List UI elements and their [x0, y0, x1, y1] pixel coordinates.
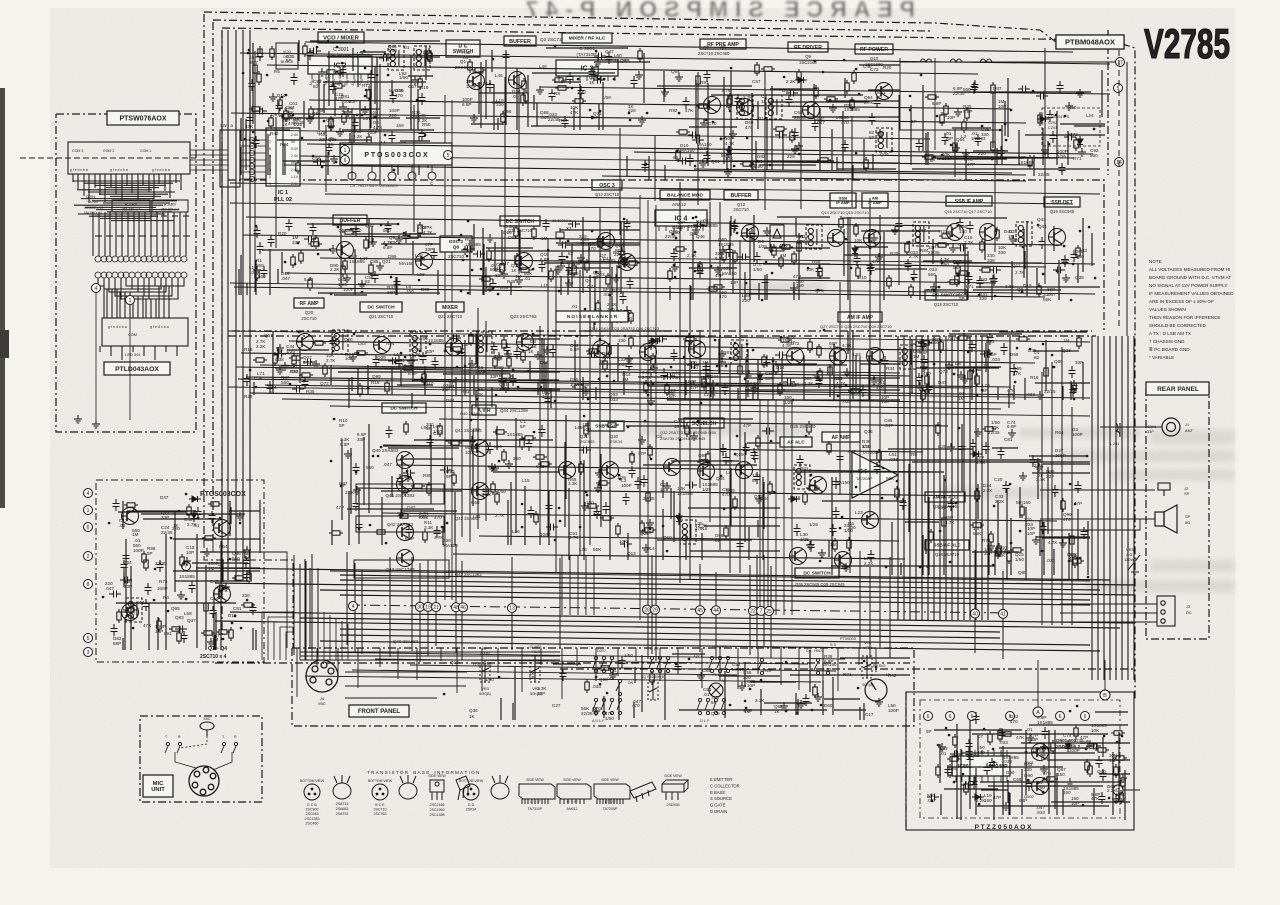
- node 6: [1081, 712, 1090, 721]
- ground: [646, 519, 654, 527]
- capacitor C134: [396, 356, 403, 368]
- component value labels: [245, 105, 431, 164]
- note text block: [1149, 259, 1234, 360]
- junction dots: [567, 241, 621, 311]
- ground: [336, 67, 344, 75]
- resistor R2: [428, 50, 432, 64]
- transistor Q38 2SA719: [835, 552, 852, 569]
- resistor R149: [778, 338, 792, 342]
- resistor R239: [813, 684, 817, 698]
- resistor R71: [308, 242, 322, 246]
- wire bus: [340, 629, 1000, 638]
- resistor R212: [806, 486, 820, 490]
- wire: [869, 567, 871, 658]
- capacitor C109: [967, 221, 974, 233]
- IC IC 3: [556, 60, 618, 81]
- junction dots: [761, 680, 821, 713]
- capacitor C218: [983, 442, 990, 454]
- ground: [1041, 146, 1049, 154]
- block AM IF AMP 1: [862, 193, 888, 208]
- wire bus: [300, 618, 1120, 628]
- resistor R277: [1085, 759, 1089, 773]
- resistor R132: [450, 347, 464, 351]
- wire: [275, 117, 277, 248]
- wire: [323, 612, 325, 660]
- resistor R48: [944, 103, 948, 117]
- wire: [659, 648, 661, 681]
- node 45: [696, 606, 705, 615]
- wires (interconnect bundle): [670, 215, 830, 300]
- capacitor C17: [594, 53, 606, 60]
- resistor R44: [991, 139, 995, 153]
- resistor R12: [258, 46, 262, 60]
- capacitor C54: [419, 129, 426, 141]
- capacitor C60: [326, 143, 333, 155]
- wire: [651, 555, 653, 654]
- resistor R158: [818, 368, 822, 382]
- capacitor C8: [257, 49, 264, 61]
- resistor R184: [448, 441, 462, 445]
- node 13: [508, 603, 517, 612]
- resistor R268: [1114, 764, 1118, 778]
- capacitor C101: [854, 254, 861, 266]
- wiring fan to LED display: [98, 278, 184, 360]
- ground: [724, 168, 732, 176]
- resistor R150: [586, 349, 600, 353]
- node 22: [749, 606, 758, 615]
- resistor R151: [817, 344, 821, 358]
- ground: [1078, 148, 1086, 156]
- wire vertical trunk: [767, 400, 769, 615]
- wire right trunk: [1121, 336, 1123, 680]
- wire: [325, 194, 1073, 204]
- node 3: [84, 648, 93, 657]
- resistor R114: [854, 223, 858, 237]
- ground: [829, 104, 837, 112]
- capacitor C171: [528, 506, 535, 518]
- faint bleed-through print at top (decorative): [519, 0, 915, 22]
- capacitor C224: [678, 158, 690, 165]
- resistor R141: [762, 354, 766, 368]
- wire: [375, 659, 808, 664]
- resistor R15: [524, 90, 528, 104]
- capacitor C248: [243, 556, 250, 568]
- ground: [582, 387, 590, 395]
- wire: [274, 622, 293, 660]
- wire: [383, 445, 923, 452]
- display segment wiring fan: [73, 174, 181, 221]
- resistor R153: [629, 335, 633, 349]
- transistor Q10 2SC1969: [876, 83, 893, 100]
- capacitor C271: [927, 794, 939, 801]
- capacitor C117: [566, 263, 573, 275]
- board label PTBM048AOX (top): [1056, 35, 1124, 49]
- wire: [282, 399, 1001, 409]
- resistor R191: [584, 423, 588, 437]
- node 2: [84, 552, 93, 561]
- transistor Q27 2SC710: [787, 348, 804, 365]
- ground: [719, 246, 727, 254]
- resistor R83: [585, 259, 589, 273]
- PTOS003COX pins: [348, 165, 436, 180]
- resistor R233: [864, 157, 868, 171]
- resistor R247: [232, 576, 246, 580]
- wires (interconnect bundle): [795, 424, 1090, 575]
- capacitor C249: [215, 585, 227, 592]
- contact row lower: [95, 272, 187, 278]
- resistor R68: [255, 267, 259, 281]
- ground: [344, 450, 352, 458]
- resistor R196: [706, 451, 710, 465]
- wire: [654, 136, 656, 201]
- TO-220 package angled: [456, 776, 470, 800]
- node 30: [416, 602, 425, 611]
- junction dots: [645, 155, 992, 166]
- POWER switch contacts: [758, 658, 764, 674]
- resistor R206: [585, 504, 599, 508]
- component value labels: [913, 336, 1083, 401]
- capacitor C21: [567, 72, 574, 84]
- ground: [797, 700, 805, 708]
- diode matrix wiring: [93, 212, 190, 256]
- ground: [595, 469, 603, 477]
- resistor R115: [955, 273, 959, 287]
- capacitor C142: [663, 373, 675, 380]
- resistor R136: [323, 363, 327, 377]
- resistor R186: [538, 462, 552, 466]
- capacitor C207: [998, 447, 1005, 459]
- transformer T2: [766, 95, 782, 119]
- resistor R168: [1044, 365, 1048, 379]
- ground: [814, 693, 822, 701]
- wire: [1118, 50, 1120, 330]
- junction dots: [250, 332, 544, 395]
- capacitor C241: [210, 606, 217, 618]
- node 14: [1115, 158, 1124, 167]
- resistor R67: [291, 254, 295, 268]
- ground: [690, 432, 698, 440]
- board label PTLD043AOX: [104, 362, 170, 375]
- node 1: [126, 296, 135, 305]
- diode: [191, 510, 197, 522]
- resistor R30: [824, 97, 838, 101]
- node 21: [432, 603, 441, 612]
- resistor R126: [469, 332, 473, 346]
- ground: [1112, 795, 1120, 803]
- wire vertical trunk: [909, 336, 911, 620]
- ground: [1019, 472, 1027, 480]
- wire: [307, 144, 1093, 154]
- resistor R161: [975, 373, 979, 387]
- node 19: [424, 602, 433, 611]
- capacitor C77: [568, 221, 580, 228]
- wire right trunk: [1127, 336, 1129, 680]
- sheet title V2785: [1144, 20, 1230, 67]
- transistor Q22 2SC710: [446, 339, 463, 356]
- wire: [576, 648, 578, 666]
- resistor R274: [1088, 763, 1092, 777]
- wire: [382, 513, 1057, 521]
- wire: [175, 752, 196, 768]
- transformer T6: [806, 225, 822, 249]
- resistor R272: [948, 764, 952, 778]
- ground: [718, 350, 726, 358]
- wire: [756, 555, 758, 646]
- wire left trunk: [305, 561, 307, 655]
- ground: [395, 235, 403, 243]
- resistor R147: [572, 385, 586, 389]
- mic plug connector: [189, 766, 219, 796]
- capacitor C168: [1001, 343, 1008, 355]
- capacitor C16: [606, 52, 613, 64]
- ground: [236, 512, 244, 520]
- wire: [697, 72, 699, 205]
- wire row2 top: [230, 183, 1100, 194]
- resistor R130: [521, 349, 525, 363]
- resistor R97: [779, 245, 793, 249]
- capacitor C80: [473, 251, 485, 258]
- resistor R194: [640, 520, 644, 534]
- block AM AF ALC: [925, 492, 965, 502]
- IC: [266, 128, 300, 186]
- wire: [285, 273, 996, 283]
- transistor Q1 (module): [122, 508, 139, 525]
- resistor R266: [1111, 731, 1125, 735]
- wire: [497, 648, 499, 673]
- ground: [486, 283, 494, 291]
- capacitor C67: [261, 266, 268, 278]
- board outline frame: [212, 22, 214, 540]
- resistor R226: [989, 531, 993, 545]
- wire: [309, 568, 311, 649]
- wire vertical trunk: [903, 336, 905, 620]
- resistor R93: [722, 249, 726, 263]
- mic connector J4: [306, 660, 338, 692]
- wire: [518, 74, 520, 274]
- resistor R29: [814, 85, 818, 99]
- wire: [898, 95, 900, 285]
- resistor R185: [522, 436, 536, 440]
- wire: [521, 648, 523, 692]
- junction dots: [245, 96, 425, 170]
- wire: [303, 652, 845, 659]
- resistor R127: [292, 353, 296, 367]
- node 6: [924, 712, 933, 721]
- ground: [795, 142, 803, 150]
- wire: [1100, 426, 1162, 428]
- wire: [416, 648, 418, 680]
- capacitor C53: [352, 118, 359, 130]
- wire: [300, 659, 560, 661]
- resistor R282: [998, 728, 1002, 742]
- ground: [411, 76, 419, 84]
- wire row2 bottom: [230, 283, 1095, 294]
- resistor R23: [472, 68, 486, 72]
- resistor R56: [284, 108, 288, 122]
- wire: [231, 113, 1026, 123]
- wire left trunk: [242, 30, 244, 580]
- wire: [241, 353, 1035, 363]
- capacitor C3: [379, 55, 391, 62]
- ground: [361, 106, 369, 114]
- wire vertical trunk: [679, 182, 681, 583]
- resistor R128: [504, 379, 508, 393]
- wire: [304, 559, 306, 660]
- wire: [1123, 789, 1140, 791]
- wire: [329, 615, 331, 660]
- resistor R228: [921, 388, 925, 402]
- transistor Q21 2SC710: [374, 337, 391, 354]
- capacitor C214: [830, 524, 837, 536]
- board outline frame: [222, 28, 1108, 40]
- resistor R210: [1070, 533, 1074, 547]
- wire: [129, 304, 131, 420]
- wires (interconnect bundle): [750, 677, 860, 715]
- ground: [488, 463, 496, 471]
- ground: [222, 583, 230, 591]
- junction dots: [444, 659, 876, 701]
- IC package view AN612: [557, 784, 591, 804]
- ground: [557, 262, 565, 270]
- transistor Q31 2SC945: [559, 462, 576, 479]
- block MIXER Q22: [436, 302, 464, 312]
- block SSB IF AMP 1: [830, 193, 856, 208]
- antenna jack J1: [1162, 418, 1180, 436]
- wires (interconnect bundle): [911, 70, 1105, 165]
- wire: [577, 555, 579, 615]
- node 4: [349, 602, 358, 611]
- resistor R120: [572, 263, 576, 277]
- wire: [719, 648, 721, 681]
- capacitor C25: [593, 77, 605, 84]
- block SQUELCH: [684, 418, 724, 428]
- wire: [234, 287, 1045, 297]
- wire: [95, 292, 97, 420]
- ground: [344, 108, 352, 116]
- wire left trunk: [249, 30, 251, 580]
- wire: [439, 419, 948, 426]
- resistor R217: [807, 421, 811, 435]
- capacitor C122: [302, 377, 309, 389]
- ground: [938, 743, 946, 751]
- transistor base view G D: [463, 784, 479, 800]
- resistor R203: [605, 423, 619, 427]
- node 5: [1114, 84, 1123, 93]
- resistor R190: [630, 451, 634, 465]
- capacitor C23: [589, 67, 596, 79]
- ground: [790, 284, 798, 292]
- ground: [813, 371, 821, 379]
- transistor Q18 2SC710: [619, 254, 636, 271]
- resistor R255: [123, 608, 137, 612]
- resistor R270: [1113, 756, 1127, 760]
- resistor R225: [1070, 559, 1084, 563]
- wire: [602, 176, 1026, 181]
- external speaker jack: [1158, 483, 1170, 496]
- wire: [413, 105, 415, 232]
- transistor Q40 2SA683: [397, 452, 414, 469]
- resistor R201: [648, 444, 652, 458]
- node 6: [1006, 712, 1015, 721]
- wire: [456, 648, 458, 693]
- wire vertical trunk: [975, 336, 977, 620]
- capacitor C18: [487, 80, 494, 92]
- resistor R94: [772, 244, 776, 258]
- capacitor C2: [309, 48, 321, 55]
- wires (interconnect bundle): [565, 415, 780, 560]
- capacitor C76: [597, 234, 604, 246]
- resistor R108: [935, 243, 949, 247]
- wire vertical trunk: [609, 229, 611, 495]
- ground: [253, 266, 261, 274]
- resistor R57: [269, 115, 273, 129]
- wire: [453, 554, 905, 559]
- capacitor C96: [762, 275, 769, 287]
- wire vertical trunk: [469, 357, 471, 542]
- wire vertical trunk: [981, 336, 983, 620]
- wire: [300, 651, 560, 653]
- wire: [357, 488, 981, 496]
- wire: [561, 555, 563, 615]
- wire left trunk: [221, 30, 223, 580]
- capacitor C120: [499, 374, 506, 386]
- ground: [947, 443, 955, 451]
- resistor R202: [600, 516, 614, 520]
- capacitor C46: [971, 82, 978, 94]
- op-amp IC5 TA7205P: [852, 452, 898, 498]
- resistor R92: [818, 265, 822, 279]
- resistor R180: [427, 482, 431, 496]
- resistor R65: [342, 230, 356, 234]
- capacitor C136: [504, 343, 511, 355]
- wire: [569, 555, 571, 615]
- capacitor C30: [692, 137, 704, 144]
- wire: [254, 51, 256, 292]
- resistor R204: [579, 461, 583, 475]
- IC package angled view: [630, 782, 656, 802]
- capacitor C212: [797, 455, 804, 467]
- resistor R101: [887, 275, 891, 289]
- resistor R111: [995, 227, 999, 241]
- node 4: [84, 489, 93, 498]
- wire: [798, 648, 800, 690]
- resistor R227: [847, 537, 851, 551]
- junction dots: [932, 728, 1122, 805]
- transistor Q28 2SC710: [830, 348, 847, 365]
- IC2 pin labels: [308, 75, 370, 87]
- capacitor C197: [751, 448, 758, 460]
- transistor Q11 2SC710: [516, 253, 533, 270]
- capacitor C204: [868, 550, 875, 562]
- wire: [800, 77, 802, 209]
- ground: [353, 486, 361, 494]
- wire vertical trunk: [933, 336, 935, 620]
- ground: [1032, 536, 1040, 544]
- resistor R110: [1037, 283, 1041, 297]
- resistor R173: [452, 472, 456, 486]
- resistor R91: [698, 261, 702, 275]
- ground: [500, 270, 508, 278]
- wire: [345, 685, 466, 687]
- capacitor C118: [591, 312, 598, 324]
- capacitor C42: [1018, 86, 1030, 93]
- wire left trunk: [317, 568, 319, 655]
- diode: [1037, 116, 1049, 122]
- capacitor C147: [775, 352, 787, 359]
- resistor R252: [142, 551, 146, 565]
- component value labels: [336, 418, 551, 548]
- capacitor C82: [543, 219, 550, 231]
